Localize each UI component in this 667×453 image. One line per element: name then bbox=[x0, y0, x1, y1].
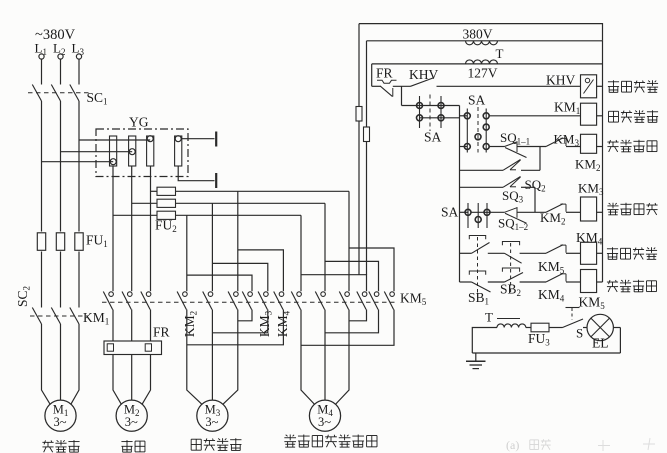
contactor KM5 main contacts bbox=[362, 292, 367, 297]
wire lamp loop bottom bbox=[472, 352, 620, 354]
svg-text:SA: SA bbox=[468, 93, 486, 108]
wire SQ2 row bbox=[460, 169, 504, 171]
wire lamp loop left bbox=[472, 328, 497, 354]
YG ring 1 bbox=[110, 136, 117, 166]
YG ring 4 bbox=[175, 136, 182, 166]
wire 380V top feeder bbox=[359, 24, 603, 41]
svg-text:3~: 3~ bbox=[205, 415, 218, 429]
brush plate lower bbox=[215, 173, 217, 188]
svg-text:3~: 3~ bbox=[318, 415, 331, 429]
pushbutton SB2 clamp contact (NO) bbox=[502, 268, 519, 272]
mechanical linkage dashed line of contact row bbox=[102, 301, 398, 303]
wire KM5 output 10 crossover bbox=[349, 310, 367, 321]
wire drop to KM2 contact 2 bbox=[211, 203, 213, 291]
motor M1 bbox=[42, 381, 51, 405]
contactor KM2 main contacts bbox=[183, 292, 188, 297]
wire link SQ1-1 to SQ2 bbox=[539, 147, 541, 171]
wire step to KM3 contact 4 bbox=[187, 275, 252, 291]
control bus vertical bbox=[459, 106, 461, 283]
contactor KM3 main contacts bbox=[248, 292, 253, 297]
wire T to FU3 bbox=[526, 327, 531, 329]
pushbutton SB2 release contact (NC) bbox=[502, 242, 519, 246]
svg-text:T: T bbox=[496, 46, 504, 61]
caption column release bbox=[607, 248, 618, 250]
YG ring 3 bbox=[147, 136, 154, 166]
wire phase-a feed line bbox=[176, 190, 350, 192]
switch S with KM5 linkage bbox=[563, 319, 584, 328]
wire KM4 output 9 to M4 bbox=[348, 310, 350, 382]
wire KM2 output 2 to M3 bbox=[211, 310, 213, 382]
wire M2 phase2 column bbox=[131, 166, 133, 291]
wire SQ3 row bbox=[460, 186, 504, 188]
fuse FU2-3 bbox=[113, 214, 157, 216]
contactor coil KM4 (column release) bbox=[581, 242, 597, 264]
wire KM2 output 1 to M3 bbox=[186, 310, 188, 382]
contactor coil KM5 (column clamp) bbox=[581, 270, 597, 293]
wire SQ1-1 row bbox=[489, 146, 504, 148]
wire link SQ3 to SQ1-2 row bbox=[534, 187, 536, 212]
wire drop to KM4 contact 8 bbox=[324, 203, 326, 291]
wire KM3 output 6 crossover bbox=[187, 310, 284, 345]
wire KM2 output 3 to M3 bbox=[237, 310, 239, 382]
wire KM5 output 11 crossover bbox=[325, 310, 379, 333]
relay KHV self-hold contact bbox=[411, 78, 435, 87]
motor M4 bbox=[301, 381, 315, 405]
brush plate upper bbox=[215, 132, 217, 147]
switch SC1 bbox=[32, 85, 41, 102]
wire KM5 output 12 crossover bbox=[301, 310, 394, 346]
transformer T primary bbox=[367, 40, 603, 42]
svg-text:127V: 127V bbox=[468, 66, 498, 81]
wire step to KM3 contact 6 bbox=[238, 250, 284, 291]
limit switch SQ2 bbox=[503, 160, 521, 171]
wire M2 phase3 column bbox=[150, 166, 152, 291]
pushbutton SB1 release contact bbox=[469, 236, 485, 240]
wire ring4 bottom to brush plate lower bbox=[178, 166, 214, 181]
return rail right side bbox=[602, 41, 604, 282]
wire drop to KM2 contact 1 bbox=[186, 215, 188, 291]
wire step to KM5 contact 11 bbox=[325, 261, 379, 291]
caption arm down bbox=[612, 203, 614, 209]
wire FR to M2 bbox=[112, 355, 114, 382]
wire SC2 to M1 phase1 bbox=[41, 324, 43, 381]
wire FU3 to S bbox=[549, 327, 563, 329]
wire phase-c feed line bbox=[176, 214, 302, 216]
fuse FU2-2 bbox=[132, 202, 157, 204]
svg-text:3~: 3~ bbox=[53, 415, 66, 429]
caption arm up bbox=[607, 141, 618, 143]
interlock contact KM5 bbox=[546, 245, 563, 254]
wire KM4 output 8 to M4 bbox=[324, 310, 326, 382]
motor M2 bbox=[113, 381, 122, 405]
svg-text:KHV: KHV bbox=[546, 73, 575, 88]
fuse FU3 bbox=[531, 323, 549, 332]
label column clamp-release (M4 caption) bbox=[289, 435, 291, 441]
fuse FU1-2 bbox=[56, 233, 64, 251]
wire ring4 to brush plate upper bbox=[181, 138, 214, 140]
fuse FU1-3 bbox=[75, 233, 83, 251]
wire lamp to loop right bbox=[613, 327, 620, 329]
pushbutton SB1 clamp contact (NC) bbox=[469, 271, 485, 275]
wire SC2 to M1 phase3 bbox=[78, 324, 80, 381]
wire step to KM5 contact 10 bbox=[301, 275, 367, 292]
ground bbox=[475, 353, 477, 361]
interlock contact KM4 bbox=[546, 273, 563, 282]
wire drop to KM4 contact 9 bbox=[348, 191, 350, 291]
wire KM3 output 4 crossover bbox=[238, 310, 252, 321]
wire step to KM3 contact 5 bbox=[212, 263, 267, 291]
interlock contact KM2 bbox=[546, 204, 563, 213]
wire clamp row from bus bbox=[460, 281, 472, 283]
wire control tap rail left bbox=[358, 24, 360, 107]
fuse FU1-1 bbox=[37, 233, 45, 251]
fuse FU2-1 bbox=[151, 190, 158, 192]
wire L1 column to FU1 bbox=[41, 101, 43, 232]
wire KM1 coil row bbox=[489, 115, 580, 117]
motor M3 bbox=[187, 381, 202, 405]
wire L2 drop bbox=[60, 59, 62, 84]
label spindle (M2 caption) bbox=[121, 441, 132, 443]
wire drop to KM2 contact 3 bbox=[237, 191, 239, 291]
svg-text:EL: EL bbox=[592, 336, 609, 351]
wire secondary left drop to FR row bbox=[371, 64, 373, 86]
wire drop to KM4 contact 7 bbox=[300, 215, 302, 291]
svg-text:SA: SA bbox=[424, 130, 442, 145]
wire L1 drop bbox=[41, 59, 43, 84]
contactor coil KM2 (arm up) bbox=[581, 134, 597, 153]
limit switch SQ3 bbox=[503, 177, 521, 188]
wire KM1 outputs to FR bbox=[112, 310, 114, 342]
wire phase-b feed line bbox=[176, 202, 326, 204]
wire tap to YG ring 1 bbox=[42, 161, 114, 163]
svg-text:FR: FR bbox=[376, 66, 393, 81]
wire tap to YG ring 2 bbox=[61, 151, 133, 153]
svg-text:S: S bbox=[576, 326, 583, 341]
label cooling pump (M1 caption) bbox=[42, 441, 53, 443]
lamp EL bbox=[583, 327, 587, 329]
wire FU1 to SC2 phase1 bbox=[41, 252, 43, 308]
wire drop to SA row bbox=[401, 86, 403, 105]
wire FU1 to SC2 phase2 bbox=[60, 252, 62, 308]
svg-text:KHV: KHV bbox=[409, 67, 438, 82]
thermal relay FR break contact bbox=[377, 80, 397, 83]
selector SA left bbox=[402, 105, 460, 107]
svg-text:SA: SA bbox=[441, 205, 459, 220]
wire L3 drop bbox=[78, 59, 80, 84]
wire SC2 to M1 phase2 bbox=[60, 324, 62, 381]
wire M2 phase1 column bbox=[112, 166, 114, 291]
svg-text:3~: 3~ bbox=[125, 415, 138, 429]
svg-text:T: T bbox=[485, 310, 493, 325]
caption column clamp bbox=[607, 281, 618, 283]
label arm raise-lower (M3 caption) bbox=[191, 438, 201, 440]
wire L3 column to FU1 bbox=[78, 101, 80, 232]
wire L2 column to FU1 bbox=[60, 101, 62, 232]
wire release row from bus bbox=[460, 252, 472, 254]
wire FU1 to SC2 phase3 bbox=[78, 252, 80, 308]
transformer T secondary bbox=[372, 63, 603, 65]
wire tap to YG ring 3 bbox=[79, 139, 150, 141]
svg-text:(a): (a) bbox=[506, 438, 519, 452]
limit switch SQ1-1 bbox=[505, 142, 518, 147]
limit switch SQ1-2 bbox=[505, 208, 518, 213]
caption zero-voltage protection bbox=[608, 81, 619, 83]
wire KM4 output 7 to M4 bbox=[300, 310, 302, 382]
svg-text:380V: 380V bbox=[463, 27, 493, 42]
svg-text:FR: FR bbox=[153, 325, 170, 340]
wire step to KM5 contact 12 bbox=[349, 248, 394, 291]
fuse on right tap rail bbox=[364, 127, 370, 142]
contactor coil KM3 (arm down) bbox=[581, 197, 597, 221]
fuse on left tap rail bbox=[356, 107, 362, 122]
interlock contact KM3 bbox=[546, 138, 563, 147]
contactor KM4 main contacts bbox=[297, 292, 302, 297]
contactor coil KM1 bbox=[581, 103, 597, 125]
svg-text:YG: YG bbox=[129, 115, 149, 130]
wire control tap rail right bbox=[366, 41, 368, 127]
YG ring 2 bbox=[129, 136, 136, 166]
contactor KM1 main contacts bbox=[109, 292, 114, 297]
wire KM3 output 5 crossover bbox=[212, 310, 267, 333]
caption spindle rotation bbox=[609, 110, 619, 112]
